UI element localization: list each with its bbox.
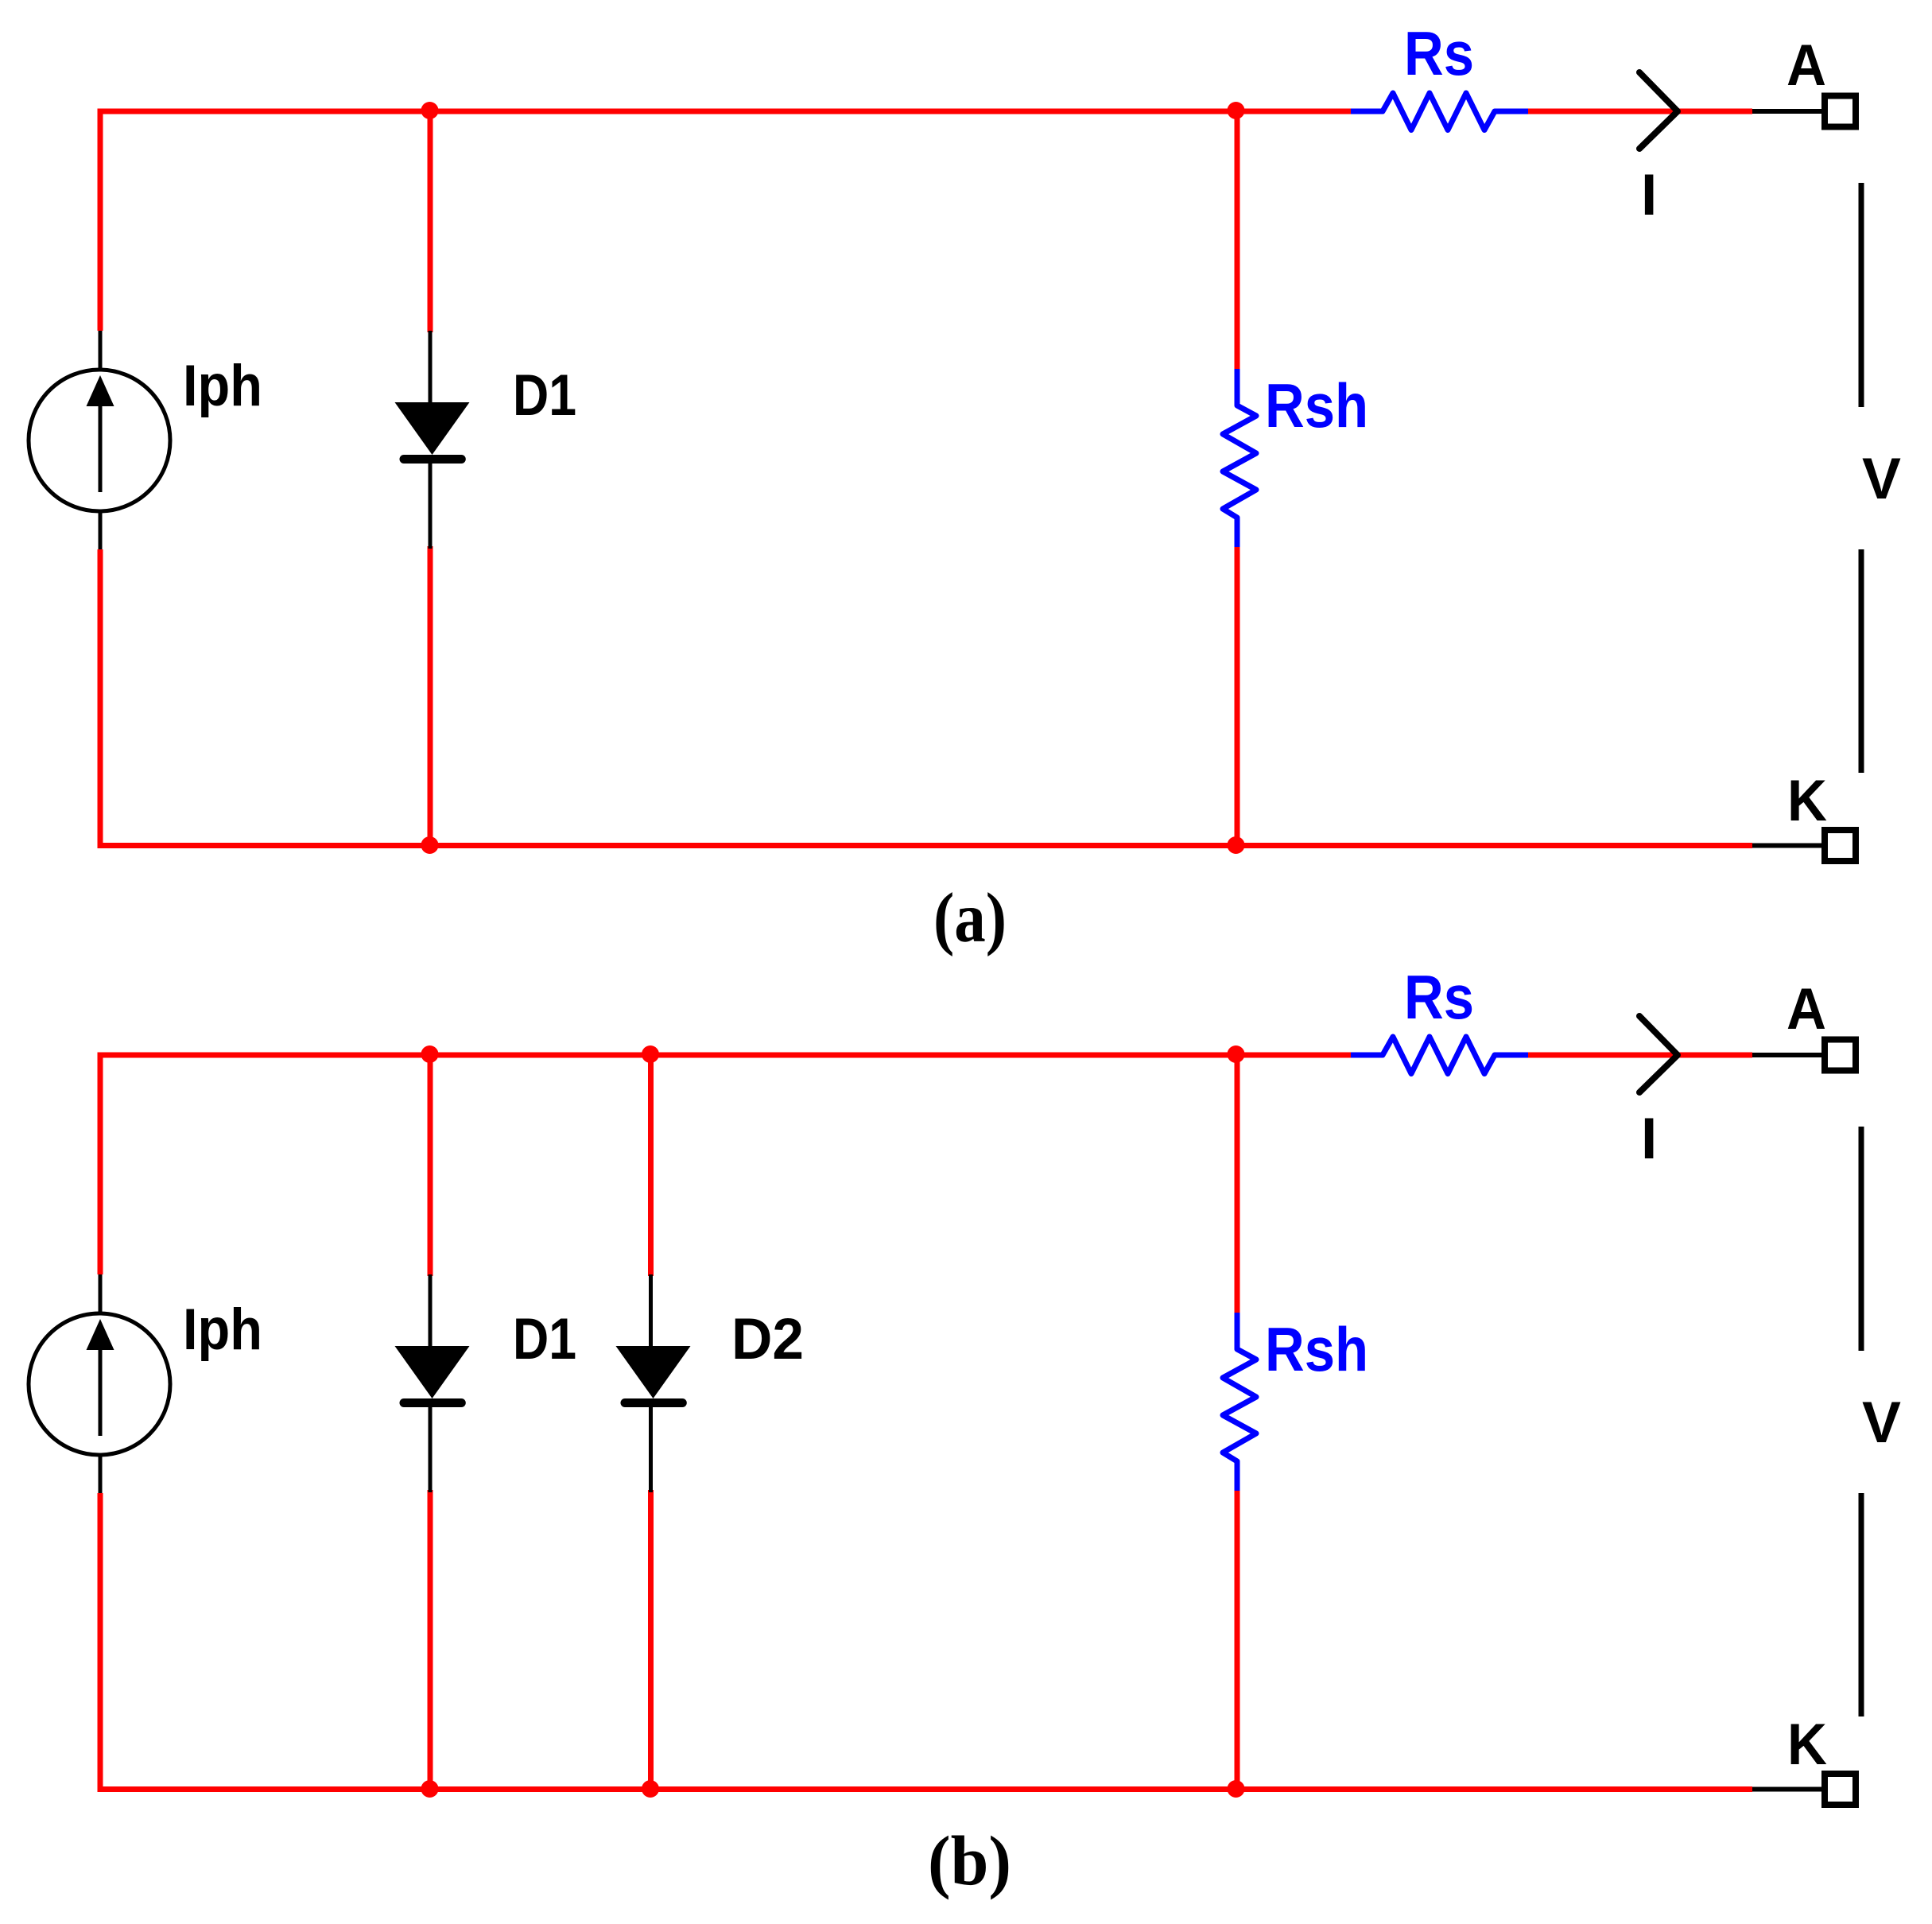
current source Iph (a) xyxy=(29,331,170,549)
node: bottom junction Rsh (b) xyxy=(1228,1780,1245,1798)
wire: Rsh top stub (a) xyxy=(1235,111,1240,370)
node: bottom junction D1 (b) xyxy=(421,1780,439,1798)
resistor Rsh (b) xyxy=(1223,1313,1256,1491)
node: top junction Rsh (b) xyxy=(1228,1045,1245,1063)
node: top junction D1 (b) xyxy=(421,1045,439,1063)
svg-text:V: V xyxy=(1862,447,1901,511)
wire: D2 cathode stub (b) xyxy=(648,1490,654,1790)
svg-text:V: V xyxy=(1862,1391,1901,1455)
wire: Rsh bottom stub (b) xyxy=(1235,1490,1240,1790)
svg-text:K: K xyxy=(1787,769,1827,833)
diode D1 (b) xyxy=(395,1274,470,1492)
terminal K square (a) xyxy=(1825,830,1856,861)
wire: Rsh top stub (b) xyxy=(1235,1055,1240,1313)
voltage bracket lower line (a) xyxy=(1859,549,1864,773)
svg-text:I: I xyxy=(1641,163,1657,227)
node: top junction D1 (a) xyxy=(421,102,439,119)
wire: black lead to terminal A (a) xyxy=(1752,109,1822,114)
wire: top rail right of Rs (a) xyxy=(1528,109,1752,114)
resistor Rsh (a) xyxy=(1223,369,1256,547)
wire: left rail + top rail (a) xyxy=(100,111,1351,331)
svg-text:Iph: Iph xyxy=(183,1298,262,1362)
current arrow I (b) xyxy=(1639,1016,1678,1092)
wire: D2 anode stub (b) xyxy=(648,1055,654,1276)
voltage bracket upper line (a) xyxy=(1859,183,1864,407)
svg-text:D1: D1 xyxy=(513,363,576,428)
wire: left rail lower + bottom rail (a) xyxy=(100,549,1752,846)
node: top junction Rsh (a) xyxy=(1228,102,1245,119)
svg-text:D2: D2 xyxy=(731,1307,804,1371)
svg-text:Rs: Rs xyxy=(1404,18,1474,88)
wire: top rail right of Rs (b) xyxy=(1528,1053,1752,1058)
svg-text:I: I xyxy=(1641,1107,1657,1171)
svg-text:A: A xyxy=(1787,977,1826,1042)
node: bottom junction D1 (a) xyxy=(421,836,439,854)
wire: D1 cathode stub (b) xyxy=(428,1490,433,1790)
terminal K square (b) xyxy=(1825,1774,1856,1805)
wire: left rail lower + bottom rail (b) xyxy=(100,1493,1752,1790)
terminal A square (a) xyxy=(1825,96,1856,127)
wire: black lead to terminal K (b) xyxy=(1752,1787,1822,1792)
wire: black lead to terminal K (a) xyxy=(1752,844,1822,848)
svg-text:A: A xyxy=(1787,33,1826,98)
voltage bracket lower line (b) xyxy=(1859,1493,1864,1716)
svg-text:Iph: Iph xyxy=(183,354,262,418)
svg-text:K: K xyxy=(1787,1713,1827,1777)
svg-text:Rsh: Rsh xyxy=(1265,370,1368,440)
current source Iph (b) xyxy=(29,1274,170,1493)
diode D1 (a) xyxy=(395,331,470,549)
wire: black lead to terminal A (b) xyxy=(1752,1053,1822,1057)
current arrow I (a) xyxy=(1639,72,1678,149)
node: top junction D2 (b) xyxy=(642,1045,659,1063)
wire: left rail + top rail (b) xyxy=(100,1055,1351,1274)
terminal A square (b) xyxy=(1825,1040,1856,1071)
voltage bracket upper line (b) xyxy=(1859,1127,1864,1351)
svg-text:Rsh: Rsh xyxy=(1265,1314,1368,1384)
wire: D1 anode stub (b) xyxy=(428,1055,433,1276)
svg-text:Rs: Rs xyxy=(1404,962,1474,1032)
diode D2 (b) xyxy=(616,1274,691,1492)
resistor Rs (a) xyxy=(1351,93,1528,130)
node: bottom junction Rsh (a) xyxy=(1228,836,1245,854)
resistor Rs (b) xyxy=(1351,1037,1528,1074)
node: bottom junction D2 (b) xyxy=(642,1780,659,1798)
svg-text:D1: D1 xyxy=(513,1307,576,1371)
svg-text:(a): (a) xyxy=(933,879,1007,957)
wire: D1 anode stub (a) xyxy=(428,111,433,332)
svg-text:(b): (b) xyxy=(928,1823,1011,1901)
wire: D1 cathode stub (a) xyxy=(428,546,433,846)
wire: Rsh bottom stub (a) xyxy=(1235,546,1240,846)
